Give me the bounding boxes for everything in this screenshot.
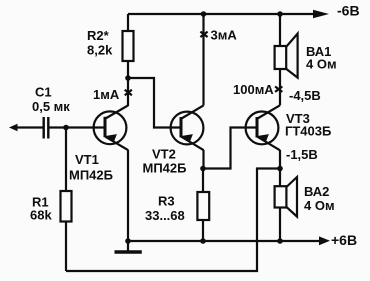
svg-text:4 Ом: 4 Ом [306, 57, 337, 72]
wire VT3 emitter to BA2 [279, 150, 281, 169]
svg-text:ГТ403Б: ГТ403Б [285, 124, 331, 139]
node VT1 collector junction [125, 75, 131, 81]
svg-text:100мА: 100мА [233, 82, 274, 97]
arrow +6V terminal [319, 236, 330, 245]
wire VT2 emitter to R3 [202, 150, 204, 169]
speaker BA1 [275, 14, 298, 78]
speaker BA2 [275, 169, 297, 242]
wire -6V top rail [128, 13, 314, 15]
resistor R2 [127, 14, 129, 31]
node VT2 emitter junction [200, 166, 206, 172]
wire VT1 collector to VT2 base [128, 78, 181, 128]
node R3 on +6V rail [200, 238, 206, 244]
transistor VT1 [94, 105, 129, 150]
svg-text:-1,5В: -1,5В [286, 147, 318, 162]
wire VT1 emitter to +6V rail [127, 150, 129, 241]
svg-text:+6В: +6В [331, 232, 357, 248]
svg-text:-4,5В: -4,5В [289, 88, 321, 103]
svg-text:VT2: VT2 [152, 147, 176, 162]
current marker 100mA [275, 87, 282, 92]
svg-text:4 Ом: 4 Ом [304, 198, 335, 213]
svg-text:R3: R3 [158, 194, 175, 209]
ground [127, 241, 129, 251]
resistor R1 [65, 128, 67, 192]
svg-text:0,5 мк: 0,5 мк [32, 99, 70, 114]
svg-text:С1: С1 [35, 85, 52, 100]
node BA2 on +6V rail [277, 238, 283, 244]
current marker 3mA [200, 32, 207, 37]
svg-text:R2*: R2* [87, 28, 110, 43]
transistor VT2 [171, 105, 204, 150]
node VT1 emitter junction [125, 238, 131, 244]
wire VT1 collector to R2 [127, 78, 129, 106]
wire feedback R1 to VT3 emitter [66, 169, 280, 272]
svg-text:МП42Б: МП42Б [69, 168, 113, 183]
node VT1 base junction [63, 125, 69, 131]
current marker 1mA [125, 90, 132, 95]
svg-text:33...68: 33...68 [145, 208, 185, 223]
wire input to C1 [16, 126, 43, 128]
svg-text:1мА: 1мА [93, 87, 120, 102]
svg-text:-6В: -6В [337, 3, 360, 19]
arrow -6V terminal [313, 10, 329, 18]
transistor VT3 [246, 105, 280, 150]
node VT3 emitter junction [277, 166, 283, 172]
capacitor C1 [44, 117, 49, 139]
wire +6V bottom rail [128, 240, 319, 242]
svg-text:ВА2: ВА2 [304, 184, 329, 199]
svg-text:VT1: VT1 [75, 152, 99, 167]
wire VT3 collector to BA1 [279, 69, 281, 105]
node BA1 on -6V rail [277, 11, 283, 17]
wire VT2 emitter to VT3 base [203, 128, 257, 169]
svg-text:МП42Б: МП42Б [143, 161, 187, 176]
wire VT2 collector to -6V rail [202, 14, 204, 105]
wire C1 to VT1 base [48, 126, 105, 128]
svg-text:8,2k: 8,2k [87, 43, 113, 58]
svg-text:68k: 68k [30, 208, 52, 223]
node VT2 collector on rail [201, 11, 207, 17]
arrow input terminal [9, 124, 18, 131]
resistor R3 [202, 169, 204, 193]
svg-text:3мА: 3мА [211, 28, 238, 43]
